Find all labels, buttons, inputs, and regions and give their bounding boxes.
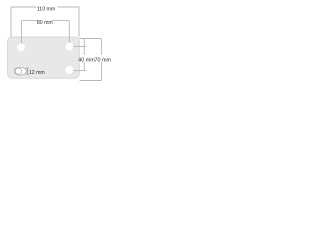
svg-text:110 mm: 110 mm <box>37 6 55 12</box>
svg-text:80 mm: 80 mm <box>37 20 53 26</box>
svg-text:12 mm: 12 mm <box>29 70 45 76</box>
svg-text:70 mm: 70 mm <box>95 57 112 63</box>
svg-text:40 mm: 40 mm <box>78 57 95 63</box>
